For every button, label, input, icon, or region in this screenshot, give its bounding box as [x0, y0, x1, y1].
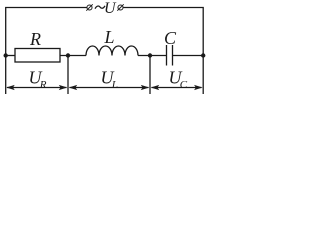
- svg-text:R: R: [39, 79, 47, 91]
- svg-text:C: C: [164, 28, 177, 48]
- svg-text:U: U: [104, 0, 117, 17]
- svg-text:C: C: [180, 79, 188, 91]
- svg-text:L: L: [111, 79, 118, 91]
- svg-text:R: R: [29, 29, 41, 49]
- svg-text:L: L: [104, 27, 115, 47]
